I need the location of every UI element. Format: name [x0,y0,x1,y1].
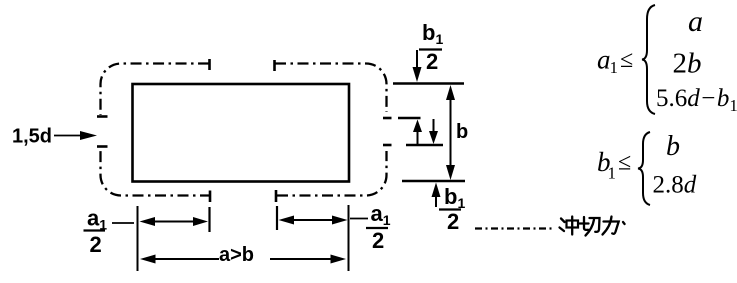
tick left of right a1/2 arrow [276,206,278,230]
small dot after li [623,222,625,224]
down arrow b1/2 top [416,50,418,72]
slot lower short line [406,144,443,146]
punching perimeter contour right-bottom segment (dash-dot) [277,151,387,196]
tick at bottom gap right end [275,190,278,202]
char li [604,222,619,234]
svg-text:≤: ≤ [620,47,633,73]
tick right of left a1/2 arrow [208,207,210,232]
char chong [561,219,565,223]
svg-text:5.6d−b1: 5.6d−b1 [656,85,737,115]
slot up arrow [417,129,419,144]
bottom edge extension line (right) [402,180,465,182]
a>b dimension arrow right part [270,258,340,260]
tick at top gap right end [273,60,276,71]
svg-text:2b: 2b [673,48,702,80]
rectangle opening a x b [133,84,350,182]
svg-text:b: b [666,131,680,162]
brace 2 [638,132,650,205]
char qie [580,222,589,224]
slot upper short line [398,117,421,119]
left extension line [137,206,139,271]
tick at left gap top end [97,115,108,118]
svg-text:a>b: a>b [219,244,254,266]
svg-text:1: 1 [610,58,619,77]
svg-text:≤: ≤ [618,150,631,176]
right a1/2 double arrow [289,219,337,221]
svg-text:2: 2 [90,232,102,257]
svg-text:1: 1 [608,164,617,183]
svg-text:a: a [597,45,611,75]
leader line left a1/2 [112,222,134,224]
svg-text:2: 2 [447,209,459,234]
leader arrow for 1,5d [54,135,84,137]
top edge extension line (right) [393,82,464,84]
up arrow b1/2 bottom [435,190,437,207]
svg-text:2: 2 [426,49,438,74]
tick at right gap bottom end [383,144,392,147]
slot down arrow [433,119,435,134]
svg-text:b: b [456,121,468,143]
left a1/2 double arrow [150,221,198,223]
leader line right a1/2 [350,218,368,220]
right extension line [348,205,350,271]
dimension b vertical double arrow [450,94,452,171]
tick at top gap left end [208,59,211,70]
tick at right gap top end [383,117,392,120]
punching perimeter contour top-right segment (dash-dot) [275,64,387,113]
tick at left gap bottom end [97,145,108,148]
legend text: punching force (Chinese) drawn as strokes [560,217,625,236]
a>b dimension arrow left part [146,258,219,260]
punching perimeter contour bottom-left segment (dash-dot) [101,150,212,196]
punching perimeter contour top-left segment (dash-dot) [101,64,210,116]
svg-text:a: a [688,5,703,38]
svg-text:2: 2 [372,228,384,253]
svg-text:2.8d: 2.8d [653,172,697,199]
svg-text:1,5d: 1,5d [12,126,52,148]
brace 1 [642,5,655,114]
legend dash-dot line [475,227,554,229]
tick at bottom gap left end [209,191,212,203]
